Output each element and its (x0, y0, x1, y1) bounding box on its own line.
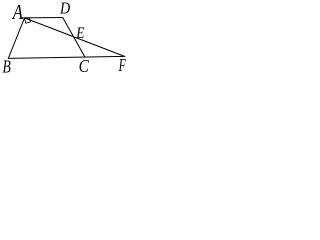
svg-text:F: F (118, 55, 126, 75)
svg-text:D: D (59, 0, 70, 18)
node F (118, 55, 126, 75)
node E (75, 25, 84, 42)
svg-text:C: C (79, 56, 90, 76)
node angle mark at A (25, 18, 31, 24)
node B (3, 58, 12, 77)
svg-text:A: A (11, 1, 23, 24)
wire diagonal A-E-F (25, 18, 125, 57)
node D (59, 0, 70, 18)
svg-text:B: B (3, 58, 12, 77)
wire top edge A-D (22, 17, 62, 19)
wire segment D-C (63, 18, 85, 58)
node A (11, 1, 23, 24)
svg-text:E: E (75, 25, 84, 42)
wire bottom edge B-F (8, 56, 125, 58)
wire left edge A-B (8, 18, 24, 59)
node C (79, 56, 90, 76)
